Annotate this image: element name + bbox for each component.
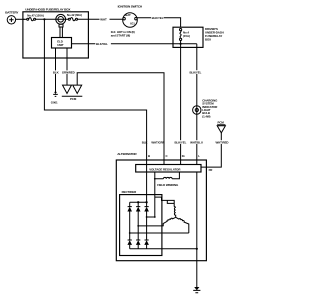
charging system indicator light (193, 98, 219, 118)
diode D1 top (127, 202, 132, 233)
ELD current sensor (56, 14, 66, 37)
battery B1 (5, 11, 19, 24)
svg-text:IG1: IG1 (130, 22, 135, 26)
wire into fuse 47 (23, 18, 27, 20)
ignition switch (111, 5, 143, 38)
svg-text:BLK/YEL: BLK/YEL (96, 42, 108, 46)
svg-text:No.47 (120A): No.47 (120A) (27, 14, 44, 18)
svg-text:PCM: PCM (70, 97, 77, 101)
PCM connector triangle right (217, 121, 225, 133)
svg-text:ALTERNATOR: ALTERNATOR (117, 152, 137, 156)
svg-text:RECTIFIER: RECTIFIER (122, 190, 138, 194)
wire B through regulator to rectifier bus (146, 160, 148, 202)
wire IG1 to under-dash box, label BLK/YEL (137, 18, 180, 28)
svg-text:PCM: PCM (218, 121, 225, 125)
voltage regulator box (136, 165, 201, 173)
svg-text:WHT: WHT (100, 18, 107, 22)
connector triangle A to PCM (63, 85, 72, 93)
fuse No.4 (15A) (180, 29, 190, 41)
svg-text:BLK/YEL: BLK/YEL (175, 140, 187, 144)
wire ELD ground BLK (55, 48, 57, 92)
PCM bracket and label (62, 96, 83, 101)
svg-text:BLK: BLK (53, 71, 60, 75)
wire battery feed down and to alternator B (44, 19, 146, 160)
diode D6 bottom (144, 240, 149, 249)
rectifier bottom bus (130, 248, 197, 250)
svg-text:BLK/YEL: BLK/YEL (190, 70, 202, 74)
svg-text:(1.4W): (1.4W) (202, 114, 210, 118)
connector triangle B to PCM (73, 85, 82, 93)
svg-text:BLK/YEL: BLK/YEL (152, 16, 164, 20)
wire alternator C to PCM connector (77, 73, 164, 160)
svg-text:No.42 (60A): No.42 (60A) (67, 13, 82, 17)
fuse No.42 (60A) (67, 13, 82, 21)
svg-text:BAT: BAT (125, 13, 131, 17)
wire fuse No.4 down to junction and out of box (180, 41, 182, 48)
svg-text:UNDER-HOOD FUSE/RELAY BOX: UNDER-HOOD FUSE/RELAY BOX (25, 8, 71, 12)
svg-text:UNIT: UNIT (57, 43, 64, 47)
phase sense wire with jog to stator coil top (154, 179, 156, 217)
stubs C IG L into regulator (164, 160, 197, 165)
svg-text:BOX: BOX (205, 38, 211, 42)
svg-text:BLK: BLK (142, 140, 149, 144)
wire IG column BLK/YEL to alternator (180, 47, 182, 160)
stator winding coil 3 (176, 217, 189, 233)
ground G alternator (193, 287, 200, 293)
alternator box (116, 152, 206, 261)
diode D2 top (136, 202, 141, 226)
driver's under-dash fuse/relay box (173, 27, 224, 47)
svg-text:WHT/GRN: WHT/GRN (151, 140, 164, 144)
regulator ground wire (196, 172, 198, 249)
phase wire 3 (147, 216, 155, 218)
junction dot battery feed (43, 18, 45, 20)
phase wire 1 (130, 232, 189, 234)
alternator ground wire (196, 249, 198, 288)
wire BLK/YEL down to charge light (196, 44, 198, 160)
svg-text:FIELD WINDING: FIELD WINDING (157, 183, 179, 187)
fuse No.47 (120A) (27, 14, 44, 21)
svg-text:IGNITION SWITCH: IGNITION SWITCH (118, 5, 143, 9)
svg-text:BATTERY: BATTERY (5, 11, 19, 15)
svg-text:VOLTAGE REGULATOR: VOLTAGE REGULATOR (149, 168, 181, 172)
field winding (155, 172, 180, 187)
ground G001 (51, 92, 58, 105)
ELD unit box (52, 38, 72, 49)
stator winding coil 2 (163, 217, 176, 226)
junction dot fuse No.4 output (180, 43, 182, 45)
svg-text:WHT/BLU: WHT/BLU (190, 140, 203, 144)
wire ELD power BLK/YEL horizontal (72, 43, 197, 45)
svg-text:WHT/RED: WHT/RED (216, 140, 229, 144)
svg-text:and START (III): and START (III) (111, 33, 130, 37)
wire WHT/RED FR signal (201, 133, 221, 167)
wire fuse42 out of box, label WHT, to ignition switch (78, 18, 123, 20)
svg-text:B: B (148, 154, 150, 158)
svg-text:(15A): (15A) (183, 34, 190, 38)
wire WHT/BLU light to alternator L, label (190, 140, 202, 144)
wire battery to under-hood box (16, 18, 25, 20)
diode D5 bottom (136, 226, 141, 249)
wire ELD signal GRN/RED (66, 48, 68, 85)
wire fuse47 to ELD sensor (36, 18, 69, 20)
rectifier top bus (130, 201, 147, 203)
rectifier box (120, 190, 162, 255)
diode D4 bottom (127, 233, 132, 249)
stator winding coil 1 (174, 207, 175, 217)
phase wire 2 (138, 225, 163, 227)
svg-text:G001: G001 (51, 100, 58, 104)
under-hood fuse/relay box (23, 8, 89, 58)
diode D3 top (144, 202, 149, 240)
svg-text:GRN/RED: GRN/RED (62, 71, 75, 75)
